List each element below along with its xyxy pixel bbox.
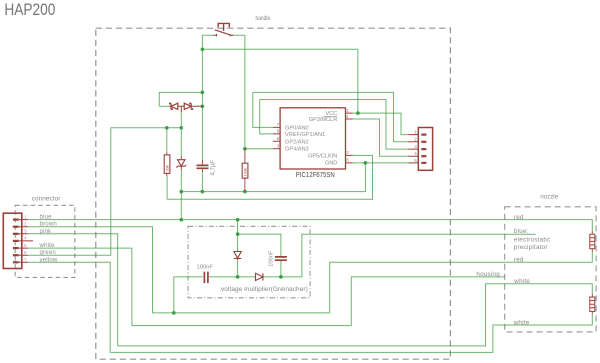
svg-text:100nF: 100nF [268, 250, 274, 267]
multiplier diode D3 leads [237, 250, 239, 260]
wire multiplier D3 bottom lead [237, 260, 239, 277]
nozzle resistor R4 box [590, 297, 595, 312]
wire GP1 to IC pin6 [260, 100, 273, 134]
svg-text:blue: blue [40, 214, 53, 221]
svg-text:GP2/AN2: GP2/AN2 [285, 139, 309, 145]
wire multiplier output [281, 234, 536, 277]
left connector X1 body [3, 213, 22, 268]
svg-text:housing: housing [476, 271, 500, 278]
svg-text:4: 4 [346, 114, 349, 119]
wire diode loop top [159, 92, 202, 106]
wire multiplier top wire [238, 234, 281, 255]
svg-text:green: green [40, 249, 57, 256]
svg-text:8: 8 [346, 158, 349, 163]
svg-text:7: 7 [24, 257, 27, 262]
wire GP0 net upper run [253, 92, 409, 141]
nozzle dashed box [505, 207, 596, 332]
wire cap C1 bottom lead [201, 172, 203, 192]
svg-text:6: 6 [24, 250, 27, 255]
svg-text:handle: handle [256, 15, 271, 22]
diode D1 leads [170, 106, 203, 112]
IC U1 pin numbers [277, 108, 350, 163]
svg-text:GP5/CLKIN: GP5/CLKIN [308, 154, 337, 160]
multiplier C3 leads [280, 256, 282, 262]
svg-text:GP4/AN3: GP4/AN3 [285, 146, 309, 152]
svg-text:GP0/AN0: GP0/AN0 [285, 126, 309, 132]
svg-text:blue:: blue: [514, 228, 529, 235]
wire yellow line [28, 262, 592, 352]
IC U1 body [280, 108, 345, 169]
wire GP5 pin2 to lower rail [167, 155, 372, 199]
svg-text:7: 7 [277, 122, 280, 127]
wire GP0 to IC pin7 [253, 92, 273, 127]
svg-text:brown: brown [40, 221, 58, 228]
wire multiplier bottom rail [209, 276, 238, 278]
node multiplier top wire [236, 232, 240, 236]
svg-text:voltage multiplier(Greinacher): voltage multiplier(Greinacher) [221, 286, 308, 293]
node multiplier rail D3 [236, 275, 240, 279]
wire MCLR pin4 to right connector pin4 [353, 119, 409, 156]
svg-text:GND: GND [325, 161, 337, 167]
svg-text:3: 3 [277, 144, 280, 149]
wire R1 top lead drop [166, 128, 168, 152]
IC U1 pin stubs [273, 113, 353, 163]
capacitor C1 4.7uF plates [197, 165, 209, 168]
svg-text:white: white [513, 319, 530, 326]
svg-text:red: red [514, 257, 524, 264]
resistor R2 box [242, 163, 248, 178]
right connector SV1 body [418, 128, 432, 171]
svg-text:5: 5 [24, 243, 27, 248]
node R2 top [243, 147, 247, 151]
wire diode mid tap [180, 112, 182, 156]
svg-text:VREF/GP1/AN1: VREF/GP1/AN1 [285, 132, 325, 138]
zener diode Z1 [176, 160, 186, 168]
left connector X1 pin stubs [19, 220, 34, 263]
switch S1 blade [215, 30, 231, 35]
wire brown line [28, 227, 592, 313]
IC U1 pin names [285, 111, 337, 166]
wire zener bottom to rails [180, 170, 182, 220]
wire GP4 to IC pin3 [245, 148, 273, 150]
junction dots [165, 47, 367, 314]
wire cap C1 top lead [201, 92, 203, 160]
wire C3 bottom lead [280, 261, 282, 277]
wire GP1 net upper run [260, 100, 409, 150]
diode D2 (schottky, pointing right) [184, 103, 192, 109]
left connector X1 pin numbers [24, 214, 27, 262]
svg-text:precipitator: precipitator [514, 244, 548, 251]
svg-text:3: 3 [24, 229, 27, 234]
diode D1 (schottky, pointing left) [170, 103, 178, 109]
nozzle R4 leads [591, 294, 593, 314]
right connector SV1 pin stubs [408, 135, 418, 163]
svg-text:2: 2 [24, 222, 27, 227]
connector dashed box [15, 205, 75, 277]
svg-text:2: 2 [346, 150, 349, 155]
svg-text:white: white [513, 278, 530, 285]
node GND tap [364, 161, 368, 165]
svg-text:red: red [514, 214, 524, 221]
resistor R1 leads [166, 152, 168, 176]
node R2 bottom [243, 190, 247, 194]
svg-text:nozzle: nozzle [540, 193, 558, 200]
svg-text:100nF: 100nF [197, 264, 214, 270]
resistor R1 box [164, 155, 170, 174]
wire green net to connector pin6 [28, 128, 111, 255]
nozzle resistor R3 box [590, 234, 595, 249]
svg-text:connector: connector [32, 196, 61, 203]
svg-text:yellow: yellow [40, 256, 58, 263]
node R1 top [165, 126, 169, 130]
node brown-multiplier input [172, 311, 176, 315]
svg-text:33k: 33k [164, 165, 169, 171]
wire GND rail [181, 163, 365, 192]
node zener-GND rail [179, 190, 183, 194]
handle assembly dashed border [96, 28, 451, 359]
svg-text:2: 2 [414, 137, 417, 142]
svg-text:3: 3 [414, 144, 417, 149]
svg-text:4,7µF: 4,7µF [211, 160, 217, 176]
svg-text:1: 1 [24, 214, 27, 219]
wire D4 to C3 [264, 276, 281, 278]
svg-text:PIC12F675SN: PIC12F675SN [296, 172, 335, 179]
svg-text:GP3/MCLR: GP3/MCLR [309, 117, 338, 123]
resistor R2 leads [244, 149, 246, 192]
svg-text:4: 4 [24, 236, 27, 241]
wire pink line [28, 234, 592, 346]
zener Z1 leads [180, 156, 182, 170]
switch S1 pin stubs [214, 34, 234, 37]
node diode loop top [201, 91, 205, 95]
node C1 bottom [201, 190, 205, 194]
svg-text:1: 1 [346, 108, 349, 113]
wire switch left node to VCC riser [202, 49, 358, 113]
svg-text:5: 5 [277, 136, 280, 141]
node blue-multiplier [236, 218, 240, 222]
wire switch right pin to resistor R2 top [231, 35, 245, 149]
wire multiplier diode D3 top lead [237, 220, 239, 250]
svg-text:1: 1 [414, 129, 417, 134]
svg-text:pink: pink [40, 228, 53, 235]
wire white pin5 line [28, 248, 505, 326]
multiplier diode D4 (pointing right) [256, 273, 263, 280]
left connector X1 inner pin pads [13, 219, 19, 264]
right connector SV1 inner pin pads [421, 134, 426, 165]
svg-text:electrostatic: electrostatic [514, 236, 550, 243]
svg-text:6: 6 [277, 129, 280, 134]
node blue-zener [179, 218, 183, 222]
multiplier diode D3 (pointing down) [234, 252, 241, 259]
IC U1 MCLR overline [323, 115, 337, 117]
node multiplier rail C3 [279, 275, 283, 279]
node switch-left [201, 47, 205, 51]
node zener top [179, 126, 183, 130]
switch S1 handle actuator [218, 23, 229, 31]
wire diode loop left segment [159, 105, 169, 107]
right connector SV1 pin numbers [414, 129, 417, 163]
node diode line right [201, 104, 205, 108]
nozzle R3 leads [591, 231, 593, 252]
left connector X1 wire labels [39, 214, 58, 264]
multiplier capacitor C3 100nF plates [275, 257, 287, 260]
multiplier diode D4 leads [255, 276, 265, 278]
nozzle wire labels [476, 214, 550, 326]
wire multiplier D4 leads [238, 276, 255, 278]
svg-text:100k: 100k [242, 168, 247, 177]
wire green net horizontal [111, 127, 182, 129]
svg-text:white: white [39, 242, 56, 249]
wire multiplier input from brown rail [174, 277, 203, 313]
wire GND pin8 to right connector pin5 [353, 162, 409, 164]
wire switch left pin drop [202, 35, 214, 49]
svg-text:HAP200: HAP200 [4, 0, 55, 19]
voltage multiplier dash-dot box [188, 226, 310, 297]
wire VCC pin1 to right connector pin1 [353, 113, 409, 135]
wire blue line [28, 220, 592, 231]
node VCC tap [356, 111, 360, 115]
wire switch left node down to diode loop [201, 49, 203, 92]
multiplier capacitor C2 100nF plates [204, 272, 208, 284]
svg-text:4: 4 [414, 151, 417, 156]
capacitor C1 leads [201, 160, 203, 172]
